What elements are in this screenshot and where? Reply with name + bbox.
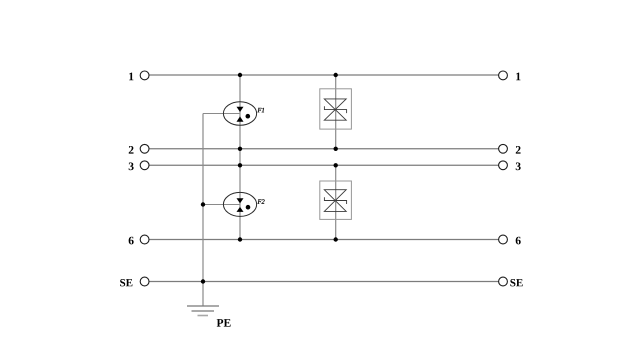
pin label 2 (right) — [516, 146, 521, 154]
junction F2 electrode / PE bus — [201, 202, 205, 206]
terminal 1 left — [129, 71, 149, 80]
net label PE — [217, 319, 231, 327]
junction SE / PE bus — [201, 279, 205, 283]
pin label 1 (left) — [129, 73, 133, 81]
wire line 6 (horizontal net 6) — [149, 239, 499, 241]
pin label 3 (left) — [129, 162, 134, 170]
designator label F2 — [257, 199, 264, 203]
pin label 1 (right) — [516, 73, 520, 81]
junction node 2 / GDT bus — [238, 147, 242, 151]
terminal 3 right — [499, 161, 521, 170]
terminal SE left — [120, 277, 149, 286]
terminal 2 left — [129, 144, 149, 153]
junction node 1 / D1 bus — [334, 73, 338, 77]
pin label SE (right) — [510, 279, 522, 286]
ground PE — [187, 306, 231, 327]
pin label SE (left) — [120, 279, 132, 286]
terminal SE right — [499, 277, 523, 286]
terminal 3 left — [129, 161, 149, 170]
pin label 6 (left) — [129, 237, 134, 245]
junction node 1 / GDT bus — [238, 73, 242, 77]
wire GDT bus vertical — [239, 75, 241, 240]
wire PE bus vertical — [202, 114, 204, 307]
wire line 2 (horizontal net 2) — [149, 148, 499, 150]
wire suppressor D1 vertical — [335, 75, 337, 149]
junction node 6 / D2 bus — [334, 237, 338, 241]
pin label 6 (right) — [516, 237, 521, 245]
junction node 6 / GDT bus — [238, 237, 242, 241]
terminal 6 left — [129, 235, 149, 244]
terminal 6 right — [499, 235, 521, 244]
gas discharge tube F2 — [203, 192, 265, 216]
wire suppressor D2 vertical — [335, 165, 337, 239]
junction node 3 / GDT bus — [238, 163, 242, 167]
terminal 2 right — [499, 144, 521, 153]
wire line SE (horizontal net SE) — [149, 281, 499, 283]
wire line 3 (horizontal net 3) — [149, 164, 499, 166]
pin label 2 (left) — [129, 146, 134, 154]
junction node 3 / D2 bus — [334, 163, 338, 167]
junction node 2 / D1 bus — [334, 147, 338, 151]
gas discharge tube F1 — [203, 102, 264, 126]
designator label F1 — [257, 108, 264, 112]
wire line 1 (horizontal net 1) — [149, 74, 499, 76]
suppressor diode D1 — [320, 89, 352, 129]
pin label 3 (right) — [516, 162, 521, 170]
terminal 1 right — [499, 71, 521, 80]
suppressor diode D2 — [320, 181, 352, 219]
